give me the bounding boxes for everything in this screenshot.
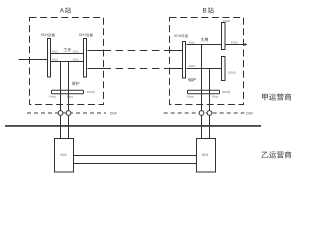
wire: interstation link 2 (A right bar to B left bar, lower)	[88, 68, 183, 70]
wire: DDF dashed line A	[27, 112, 106, 114]
label 保护 (A)	[72, 82, 76, 86]
wire: working line between A bars (top)	[51, 53, 84, 55]
label 200对 beside ODF strip B	[222, 90, 230, 94]
wire: interstation link 1 (A right bar to B left bar, upper)	[88, 50, 183, 52]
svg-text:SDH: SDH	[79, 33, 87, 37]
svg-text:AU1: AU1	[189, 41, 195, 45]
svg-text:601: 601	[202, 152, 209, 157]
svg-text:100(1): 100(1)	[228, 70, 237, 74]
svg-text:Prot: Prot	[212, 95, 218, 99]
wire: B protection line from left bar to lower right mux	[187, 68, 222, 70]
wire: B vertical drop 1	[201, 45, 203, 139]
wire: DDF dashed line B	[164, 112, 245, 114]
svg-text:SDH: SDH	[174, 34, 182, 38]
svg-text:Prot: Prot	[67, 95, 73, 99]
SDH equipment bar B1	[183, 42, 186, 79]
svg-text:Prim: Prim	[187, 95, 194, 99]
svg-text:DDF: DDF	[246, 112, 254, 116]
svg-text:AU1: AU1	[73, 58, 79, 62]
node: DDF connector A1	[58, 111, 63, 116]
SDH equipment bar A1	[48, 39, 51, 78]
svg-text:100: 100	[87, 90, 92, 94]
svg-text:SDH: SDH	[41, 33, 49, 37]
wire: A vertical drop 1	[60, 62, 62, 139]
SDH equipment bar A2	[84, 39, 87, 78]
label SDH设备 above bar B1	[174, 34, 188, 38]
node: DDF connector B1	[199, 111, 204, 116]
label 保护 (B)	[188, 78, 192, 82]
station A dashed box	[30, 18, 104, 105]
wire: duct line lower between boxes	[73, 163, 197, 165]
station B dashed box	[170, 18, 244, 105]
svg-text:AU3: AU3	[52, 58, 58, 62]
ODF strip B	[188, 90, 220, 93]
label 工作	[64, 48, 68, 51]
wire: A external line into left SDH bar	[19, 59, 48, 61]
wire: B vertical drop 2	[209, 69, 211, 139]
svg-text:PCM: PCM	[231, 40, 238, 44]
svg-text:B: B	[203, 8, 207, 15]
svg-text:DDF: DDF	[110, 112, 118, 116]
svg-text:AU1: AU1	[52, 49, 58, 53]
label SDH设备 above bar A2	[79, 33, 93, 37]
svg-text:501: 501	[60, 152, 67, 157]
svg-text:200: 200	[222, 90, 227, 94]
node: DDF connector B2	[207, 111, 212, 116]
svg-text:Prim: Prim	[49, 95, 56, 99]
wire: duct line upper between boxes	[73, 155, 197, 157]
manhole box 501 (A)	[55, 139, 74, 173]
PDH mux bar B lower	[222, 57, 226, 81]
wire: A vertical drop 2	[68, 62, 70, 139]
label 甲运营商	[262, 94, 268, 101]
station label B站	[203, 7, 214, 14]
manhole box 601 (B)	[197, 139, 216, 173]
label 主用	[201, 38, 205, 42]
label SDH设备 above bar A1	[41, 33, 55, 37]
PDH mux bar B upper	[222, 23, 226, 50]
svg-text:AU3: AU3	[189, 64, 195, 68]
wire: carrier boundary long line	[5, 125, 261, 127]
ODF strip A	[52, 90, 84, 93]
wire: B main-use line from left bar through upper right mux, with arrow end	[187, 43, 248, 46]
node: DDF connector A2	[66, 111, 71, 116]
station label A站	[60, 7, 71, 14]
label 100对 beside ODF strip A	[87, 90, 95, 94]
wire: protection line between A bars (bottom)	[51, 61, 84, 63]
svg-text:AU1: AU1	[73, 49, 79, 53]
svg-text:140M: 140M	[223, 19, 231, 23]
label 乙运营商	[262, 152, 269, 158]
